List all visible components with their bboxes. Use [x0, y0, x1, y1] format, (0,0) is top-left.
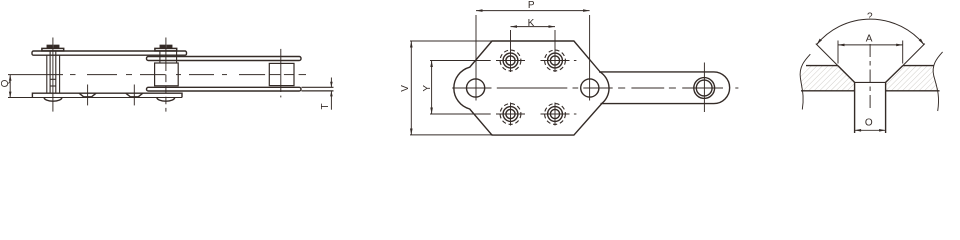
svg-text:Q: Q	[0, 79, 11, 87]
svg-text:O: O	[865, 118, 873, 129]
svg-text:T: T	[320, 103, 331, 109]
svg-text:?: ?	[867, 11, 873, 22]
svg-text:K: K	[528, 18, 535, 29]
svg-text:V: V	[400, 85, 411, 92]
svg-text:P: P	[528, 0, 535, 11]
svg-text:Y: Y	[422, 85, 433, 92]
svg-text:A: A	[866, 33, 873, 44]
